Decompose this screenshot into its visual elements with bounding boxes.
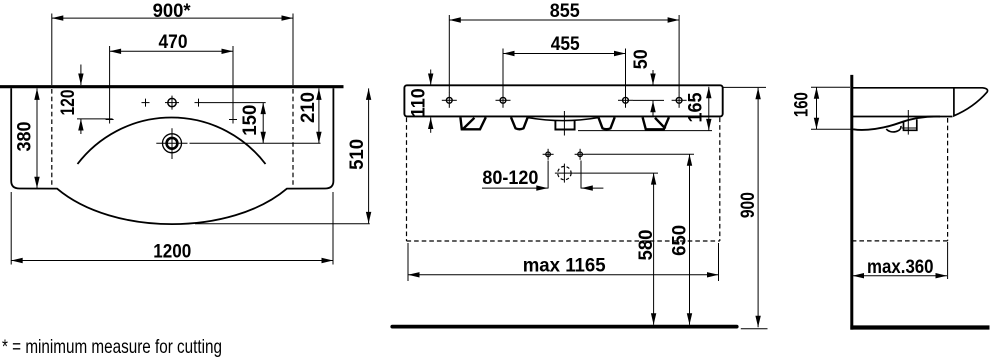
extension line 900 left bbox=[51, 14, 53, 86]
svg-text:470: 470 bbox=[159, 31, 188, 53]
svg-text:80-120: 80-120 bbox=[482, 167, 538, 189]
extension line 80-120 left bbox=[547, 161, 549, 189]
svg-text:455: 455 bbox=[551, 33, 580, 55]
rib lug A bbox=[460, 117, 485, 129]
extension line 1200 right bbox=[332, 192, 334, 265]
svg-text:160: 160 bbox=[791, 92, 813, 117]
svg-text:210: 210 bbox=[297, 92, 319, 123]
extension line 455 left bbox=[502, 49, 504, 94]
dimension 160 bbox=[791, 87, 817, 129]
dashed cut line left bbox=[51, 89, 53, 187]
right tap hole mark bbox=[195, 99, 203, 107]
dashed cut line right bbox=[292, 89, 294, 186]
svg-text:* = minimum measure for cuttin: * = minimum measure for cutting bbox=[2, 336, 222, 357]
extension line 160 top bbox=[811, 86, 850, 88]
fixing hole 3 bbox=[618, 93, 633, 108]
extension line 470 right bbox=[232, 46, 234, 124]
dimension 50 bbox=[630, 49, 664, 115]
left tap hole mark bbox=[142, 99, 150, 107]
footnote bbox=[2, 336, 222, 357]
dimension 900 bbox=[737, 88, 759, 328]
washbasin body outline bbox=[11, 88, 333, 224]
extension line drain level bbox=[190, 142, 321, 144]
siphon dome bbox=[886, 126, 901, 132]
extension line 1200 left bbox=[10, 192, 12, 265]
drain center mark bbox=[902, 110, 917, 135]
dimension 510 bbox=[346, 88, 369, 223]
svg-text:900*: 900* bbox=[153, 0, 191, 22]
fixing hole 1 bbox=[442, 93, 457, 108]
floor extension line bbox=[741, 328, 768, 330]
svg-text:900: 900 bbox=[737, 192, 759, 218]
bowl recess arc bbox=[528, 118, 598, 121]
svg-text:580: 580 bbox=[635, 229, 657, 260]
extension line 80-120 right bbox=[580, 161, 582, 189]
dimension 650 bbox=[669, 154, 691, 324]
dashed basin outline left bbox=[406, 118, 408, 242]
fixing hole 4 bbox=[672, 93, 687, 108]
dimension 455 bbox=[503, 33, 626, 55]
rib lug B bbox=[511, 117, 528, 129]
dimension max 1165 bbox=[408, 255, 719, 277]
svg-text:510: 510 bbox=[346, 139, 368, 170]
dimension 165 bbox=[684, 87, 708, 131]
svg-text:120: 120 bbox=[57, 89, 79, 115]
svg-text:1200: 1200 bbox=[153, 240, 191, 262]
drain hole bbox=[156, 128, 187, 159]
drain tab bbox=[555, 121, 574, 130]
hidden tap hole tick left bbox=[106, 119, 114, 121]
dimension 80-120 bbox=[482, 167, 603, 189]
extension line drain level bbox=[574, 172, 658, 174]
floor line right bbox=[850, 325, 989, 329]
extension line lug bottom bbox=[578, 130, 712, 132]
dashed basin outline right bbox=[719, 118, 721, 242]
fixing hole 2 bbox=[496, 93, 511, 108]
mounting bar outline bbox=[404, 85, 722, 116]
extension line 455 right bbox=[625, 49, 627, 94]
svg-text:max.360: max.360 bbox=[867, 256, 934, 278]
dimension 1200 bbox=[11, 240, 333, 262]
bowl arc bbox=[78, 118, 266, 164]
worktop top line bbox=[0, 85, 344, 88]
dashed basin outline bottom bbox=[407, 240, 720, 242]
wall tap hole left bbox=[543, 149, 554, 160]
drain outlet box bbox=[904, 119, 917, 130]
dimension 110 bbox=[408, 70, 431, 133]
extension line 1165 right bbox=[718, 243, 720, 281]
dashed depth line vertical bbox=[947, 118, 949, 241]
wall tap hole right bbox=[575, 149, 586, 160]
wall line bbox=[850, 75, 853, 330]
extension line 360 right bbox=[947, 242, 949, 279]
svg-text:50: 50 bbox=[630, 49, 652, 69]
svg-text:110: 110 bbox=[408, 88, 430, 117]
rib lug C bbox=[598, 117, 614, 129]
dimension max.360 bbox=[853, 256, 948, 278]
floor line bbox=[392, 325, 736, 329]
dimension 150 bbox=[239, 103, 263, 144]
extension line 160 bottom bbox=[811, 128, 854, 130]
extension line 470 left bbox=[109, 46, 111, 124]
extension line 900 right bbox=[292, 14, 294, 86]
svg-text:150: 150 bbox=[239, 105, 261, 136]
dimension 900* bbox=[52, 0, 293, 22]
extension line 855 right bbox=[678, 15, 680, 93]
dimension 380 bbox=[13, 88, 37, 188]
svg-text:380: 380 bbox=[13, 121, 35, 151]
extension line 855 left bbox=[448, 15, 450, 93]
dimension 120 bbox=[57, 65, 113, 135]
dimension 210 bbox=[297, 88, 319, 143]
svg-text:650: 650 bbox=[669, 225, 691, 256]
extension line basin lowest point bbox=[195, 223, 370, 225]
rib lug D bbox=[643, 117, 669, 129]
extension line tap level bbox=[203, 102, 266, 104]
extension line hole level bbox=[586, 153, 695, 155]
dimension 580 bbox=[635, 173, 657, 325]
drain outlet dashed circle bbox=[555, 164, 574, 183]
extension line 900 top bbox=[724, 86, 767, 88]
dimension 470 bbox=[110, 31, 233, 53]
extension line 1165 left bbox=[407, 243, 409, 281]
faucet hole bbox=[165, 96, 179, 110]
dimension 855 bbox=[449, 0, 679, 22]
center line bbox=[563, 111, 565, 136]
basin side profile bbox=[853, 88, 988, 130]
svg-text:165: 165 bbox=[684, 92, 706, 122]
svg-text:max 1165: max 1165 bbox=[523, 255, 606, 277]
svg-text:855: 855 bbox=[550, 0, 580, 22]
hidden tap hole tick right bbox=[229, 119, 237, 121]
dashed depth line horizontal bbox=[852, 240, 948, 242]
